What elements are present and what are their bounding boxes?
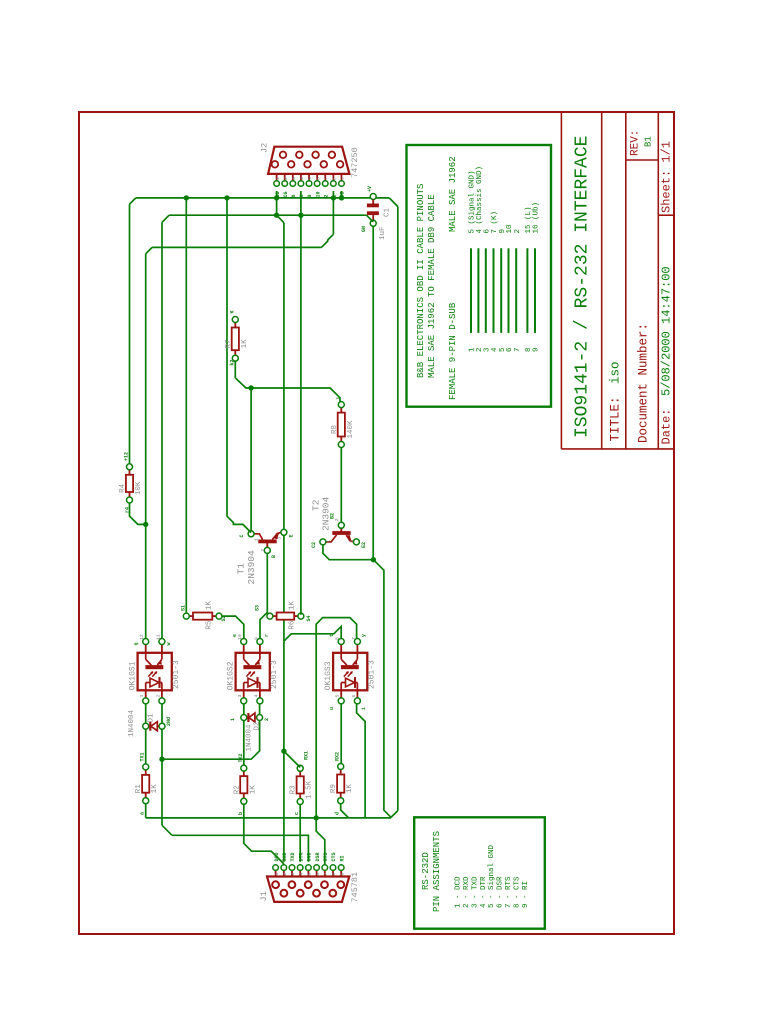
svg-text:2Nd: 2Nd — [166, 717, 172, 726]
svg-text:RI: RI — [339, 855, 345, 861]
svg-text:12: 12 — [139, 634, 145, 640]
wire V-C to opto1 pin12 — [145, 254, 147, 639]
svg-text:w: w — [166, 642, 172, 645]
wire T1 base to opto2 pin9 — [260, 554, 267, 639]
svg-text:B2: B2 — [329, 513, 335, 519]
junction J2 pin8 on line A — [331, 195, 336, 200]
svg-text:SG: SG — [275, 191, 281, 197]
svg-text:10: 10 — [237, 634, 243, 640]
svg-text:140K: 140K — [347, 420, 355, 439]
svg-text:Sheet: 1/1: Sheet: 1/1 — [660, 141, 674, 213]
svg-text:9 - RI: 9 - RI — [522, 881, 530, 908]
svg-text:TXD: TXD — [290, 852, 296, 861]
wire chamfer V11 bottom — [391, 811, 398, 818]
svg-text:1K: 1K — [346, 784, 354, 794]
wire opto2 pin3 to D2 — [243, 704, 245, 714]
svg-text:R2: R2 — [233, 785, 241, 794]
svg-text:7: 7 — [351, 637, 357, 640]
svg-text:R3: R3 — [290, 785, 298, 795]
svg-text:2501-3: 2501-3 — [172, 660, 181, 689]
svg-text:1uF: 1uF — [379, 226, 387, 240]
svg-text:L: L — [332, 194, 338, 197]
svg-text:S1: S1 — [180, 605, 186, 611]
svg-text:3: 3 — [277, 537, 283, 540]
wire J2 pin9 drop — [341, 191, 343, 198]
wire bus line B (GND rail) — [169, 214, 366, 216]
capacitor C1 1uF — [367, 194, 379, 227]
connector J2 DB9 747250 — [268, 147, 349, 187]
svg-text:OK1GS2: OK1GS2 — [227, 661, 236, 690]
svg-text:3: 3 — [291, 177, 297, 180]
svg-text:e: e — [232, 634, 238, 637]
svg-text:5: 5 — [307, 873, 313, 876]
wire horseshoe opto3 pin7 — [316, 618, 356, 865]
optocoupler OK1GS2 2501-3 — [236, 639, 270, 704]
svg-text:6: 6 — [315, 177, 321, 180]
svg-text:R8: R8 — [331, 425, 339, 434]
wire J2 pin8 drop — [332, 191, 334, 234]
junction D1 column x GND spur — [159, 757, 164, 762]
svg-text:1: 1 — [326, 540, 332, 543]
svg-text:GND: GND — [307, 852, 313, 861]
wire R3 bottom to J1 pin4 — [299, 805, 301, 862]
svg-text:GN: GN — [361, 226, 367, 232]
svg-text:2501-3: 2501-3 — [368, 660, 377, 689]
wire chamfer C-right — [321, 234, 333, 247]
svg-text:CTS: CTS — [331, 852, 337, 861]
svg-text:TITLE:: TITLE: — [609, 396, 623, 441]
svg-text:i: i — [361, 707, 367, 710]
junction J2 pin1 on line B — [274, 213, 279, 218]
svg-text:745781: 745781 — [350, 872, 360, 903]
svg-text:RXD: RXD — [282, 852, 288, 861]
wire J2 pin4 drop / V7 to R6 — [300, 191, 302, 615]
wire V284 bottom to J1 pin2 — [283, 641, 285, 862]
svg-text:L: L — [335, 396, 341, 399]
resistor R7 — [232, 317, 239, 362]
svg-text:4 (Chassis GND): 4 (Chassis GND) — [476, 166, 484, 234]
wire R8 bottom to T2 base — [340, 448, 342, 523]
svg-text:b: b — [238, 812, 244, 815]
svg-text:REV:: REV: — [630, 130, 642, 156]
svg-text:TX2: TX2 — [238, 753, 244, 762]
wire R1 bottom stub — [145, 804, 147, 818]
svg-text:B: B — [271, 555, 277, 558]
svg-text:1K: 1K — [151, 784, 159, 794]
svg-text:OK1GS3: OK1GS3 — [324, 661, 333, 690]
svg-text:+V: +V — [367, 186, 373, 192]
svg-text:RX2: RX2 — [335, 752, 341, 761]
svg-text:10: 10 — [315, 191, 321, 197]
wire V2 to opto1 pin11 — [161, 222, 163, 638]
wire V1 to R4 — [129, 204, 131, 464]
svg-text:C2: C2 — [311, 542, 317, 548]
svg-text:S3: S3 — [255, 605, 261, 611]
svg-text:3: 3 — [290, 873, 296, 876]
svg-text:u: u — [329, 707, 335, 710]
svg-text:1 - DCD: 1 - DCD — [455, 876, 463, 908]
wire R5 right to opto2 pin10 — [222, 616, 244, 638]
svg-text:1K: 1K — [206, 601, 214, 611]
svg-text:3: 3 — [237, 695, 243, 698]
svg-text:1: 1 — [230, 718, 236, 721]
svg-text:C1: C1 — [384, 207, 392, 217]
svg-text:t: t — [329, 634, 335, 637]
svg-text:2: 2 — [283, 177, 289, 180]
svg-text:K: K — [299, 194, 305, 197]
note box: B&B cable pinout table — [407, 145, 552, 407]
wire V11 right riser — [397, 207, 399, 811]
diode D1 1N4004 — [143, 722, 165, 731]
svg-text:J1: J1 — [259, 891, 269, 901]
svg-text:Date:: Date: — [660, 408, 674, 444]
svg-text:B1: B1 — [644, 136, 654, 147]
svg-text:T1: T1 — [236, 563, 247, 575]
svg-text:8: 8 — [331, 873, 337, 876]
wire opto1 pin1 to D1 — [145, 704, 147, 723]
svg-text:4: 4 — [298, 873, 304, 876]
svg-text:1: 1 — [139, 695, 145, 698]
connector J1 DB9 745781 — [267, 865, 349, 902]
wire GND spur to D2 — [162, 721, 260, 760]
wire chamfer B-right to C1 — [367, 215, 374, 222]
svg-text:a: a — [140, 812, 146, 815]
svg-text:6: 6 — [291, 194, 297, 197]
wire 835 rail to J1 pin5 — [172, 835, 308, 861]
junction V10 T2 collector — [371, 557, 376, 562]
wire V10 lower riser — [373, 560, 391, 818]
wire bottom rail (py 817) — [146, 817, 392, 819]
wire V284 lower — [283, 535, 285, 642]
page border frame — [79, 112, 674, 934]
svg-text:r4: r4 — [124, 507, 130, 513]
svg-text:OK1GS1: OK1GS1 — [129, 661, 138, 690]
junction horseshoe on bottom rail — [314, 815, 319, 820]
svg-text:5: 5 — [335, 695, 341, 698]
svg-text:E: E — [288, 534, 294, 537]
svg-text:PIN ASSIGNMENTS: PIN ASSIGNMENTS — [432, 831, 442, 912]
svg-text:CG: CG — [283, 191, 289, 197]
title block frame — [561, 113, 674, 449]
wire opto2 pin4 stub — [259, 704, 261, 714]
svg-text:10K: 10K — [135, 481, 143, 495]
svg-text:k2: k2 — [229, 359, 235, 365]
svg-text:D2: D2 — [254, 721, 262, 730]
svg-text:1: 1 — [274, 873, 280, 876]
wire R3 top diagonal — [284, 751, 300, 767]
svg-text:1K: 1K — [241, 339, 249, 349]
junction J2 pin9 on line A — [339, 195, 344, 200]
svg-text:1: 1 — [275, 177, 281, 180]
svg-text:2N3904: 2N3904 — [246, 550, 257, 585]
wire R7 bottom to T1 collector rail — [235, 361, 340, 401]
junction R4 jog on V-C — [143, 522, 148, 527]
resistor R9 — [337, 764, 344, 804]
svg-text:4: 4 — [253, 695, 259, 698]
svg-text:MALE SAE J1962 TO FEMALE DB9 C: MALE SAE J1962 TO FEMALE DB9 CABLE — [427, 194, 437, 378]
svg-text:E2: E2 — [361, 542, 367, 548]
svg-text:S2: S2 — [221, 615, 227, 621]
svg-text:1: 1 — [254, 538, 260, 541]
svg-text:d: d — [335, 812, 341, 815]
svg-text:11: 11 — [155, 634, 161, 640]
svg-text:ISO9141-2 / RS-232 INTERFACE: ISO9141-2 / RS-232 INTERFACE — [573, 136, 593, 438]
resistor R6 — [267, 613, 304, 620]
svg-text:4 - DTR: 4 - DTR — [480, 876, 488, 908]
wire D1 to R1 — [145, 729, 147, 763]
wire D1 right column — [161, 729, 163, 825]
junction V7 on line B — [298, 213, 303, 218]
svg-text:RX1: RX1 — [304, 751, 310, 760]
wire chamfer into 835 rail — [162, 825, 172, 835]
transistor T2 2N3904 — [320, 522, 360, 545]
wire bus line A (+12V rail) — [136, 197, 389, 199]
wire R4 bottom jog — [130, 503, 146, 524]
svg-text:DCD: DCD — [274, 852, 280, 861]
svg-text:R9: R9 — [330, 784, 338, 793]
svg-text:9: 9 — [253, 637, 259, 640]
resistor R1 — [142, 764, 149, 804]
wire D2 to R2 — [243, 721, 245, 765]
wire R9 bottom diagonal — [341, 804, 349, 818]
svg-text:2: 2 — [282, 873, 288, 876]
svg-text:y: y — [361, 634, 367, 637]
svg-text:2: 2 — [264, 718, 270, 721]
svg-text:8: 8 — [335, 637, 341, 640]
wire R2 bottom to J1 pin2 — [244, 805, 284, 864]
svg-text:9: 9 — [340, 177, 346, 180]
svg-text:7: 7 — [514, 347, 522, 352]
svg-text:R5: R5 — [206, 620, 214, 630]
svg-text:7 - RTS: 7 - RTS — [505, 876, 513, 908]
resistor R4 — [126, 464, 133, 503]
transistor T1 2N3904 — [248, 529, 287, 553]
resistor R3 — [297, 765, 304, 804]
wire T1 emitter riser / V284 upper — [277, 215, 284, 223]
wire R6 left stub — [266, 615, 268, 617]
wire bus line C — [152, 246, 321, 248]
optocoupler OK1GS1 2501-3 — [138, 639, 172, 704]
wire chamfer B-left — [162, 215, 169, 222]
svg-text:8 - CTS: 8 - CTS — [513, 876, 521, 908]
svg-text:2: 2 — [514, 229, 522, 234]
svg-text:5: 5 — [307, 177, 313, 180]
svg-text:DTR: DTR — [298, 852, 304, 861]
wire chamfer A-right — [389, 198, 398, 207]
optocoupler OK1GS3 2501-3 — [333, 639, 367, 704]
svg-text:UB: UB — [340, 191, 346, 197]
resistor R2 — [240, 765, 247, 804]
svg-text:TX1: TX1 — [140, 752, 146, 761]
svg-text:7: 7 — [323, 177, 329, 180]
junction R3 tap on V284 — [281, 748, 286, 753]
svg-text:R1: R1 — [135, 784, 143, 794]
svg-text:8: 8 — [332, 177, 338, 180]
svg-text:Document Number:: Document Number: — [637, 323, 651, 443]
wire chamfer C-left — [146, 247, 152, 253]
wire V3 to R5 left — [185, 198, 187, 613]
wire opto1 pin2 to D1 — [161, 704, 163, 723]
svg-text:S4: S4 — [306, 615, 312, 621]
svg-text:r: r — [264, 634, 270, 637]
svg-text:9: 9 — [339, 873, 345, 876]
svg-text:R4: R4 — [119, 483, 127, 493]
svg-text:1N4004: 1N4004 — [246, 724, 254, 752]
svg-text:747250: 747250 — [350, 147, 360, 178]
svg-text:5 - Signal GND: 5 - Signal GND — [488, 844, 496, 908]
junction T1 collector rail — [248, 385, 253, 390]
svg-text:c: c — [294, 812, 300, 815]
svg-text:1.5K: 1.5K — [306, 780, 314, 799]
resistor R8 — [338, 402, 345, 448]
svg-text:1K: 1K — [249, 785, 257, 795]
wire R7 top stub — [234, 323, 236, 325]
svg-text:9: 9 — [533, 347, 541, 352]
svg-text:3: 3 — [349, 540, 355, 543]
svg-text:7: 7 — [323, 873, 329, 876]
wire T1 collector riser — [250, 388, 252, 531]
svg-text:+12: +12 — [124, 452, 130, 461]
diode D2 1N4004 — [241, 713, 263, 722]
resistor R5 — [183, 613, 222, 620]
junction J2 pin1 on line A — [274, 195, 279, 200]
svg-text:5/08/2000 14:47:00: 5/08/2000 14:47:00 — [660, 266, 674, 396]
svg-text:16 (Ub): 16 (Ub) — [533, 202, 541, 234]
svg-text:2: 2 — [323, 194, 329, 197]
svg-text:q: q — [134, 642, 140, 645]
svg-text:C: C — [239, 534, 245, 537]
wire opto3 pin5 to R9 — [340, 704, 342, 763]
svg-text:6: 6 — [315, 873, 321, 876]
svg-text:R7: R7 — [225, 339, 233, 348]
junction V4 on line A — [224, 195, 229, 200]
svg-text:1K: 1K — [288, 601, 296, 611]
svg-text:B&B ELECTRONICS OBD II CABLE P: B&B ELECTRONICS OBD II CABLE PINOUTS — [416, 184, 426, 378]
wire T2 collector run — [323, 546, 374, 560]
svg-text:MALE SAE J1962: MALE SAE J1962 — [448, 156, 458, 232]
svg-text:2: 2 — [155, 695, 161, 698]
svg-text:6: 6 — [351, 695, 357, 698]
svg-text:3 - TXD: 3 - TXD — [471, 876, 479, 908]
junction V3 on line A — [184, 195, 189, 200]
wire opto3 pin6 drop — [357, 704, 366, 818]
wire J2 pin1 drop — [276, 191, 278, 215]
wire emitter branch to opto3 pin8 — [284, 626, 341, 641]
svg-text:RS-232D: RS-232D — [421, 852, 431, 890]
wire V4 riser — [227, 198, 251, 533]
svg-text:J2: J2 — [260, 143, 270, 153]
note box: RS-232D pin assignments — [414, 817, 545, 928]
svg-text:R6: R6 — [288, 620, 296, 630]
svg-text:iso: iso — [609, 361, 623, 384]
svg-text:DSR: DSR — [315, 852, 321, 861]
svg-text:RTS: RTS — [323, 852, 329, 861]
svg-text:6 - DSR: 6 - DSR — [497, 876, 505, 908]
svg-text:2501-3: 2501-3 — [270, 660, 279, 689]
svg-text:1N4004: 1N4004 — [128, 709, 136, 737]
svg-text:2 - RXD: 2 - RXD — [463, 876, 471, 908]
svg-text:D1: D1 — [148, 713, 156, 723]
wire chamfer A-left — [130, 198, 136, 204]
svg-text:9: 9 — [307, 194, 313, 197]
svg-text:2: 2 — [260, 549, 266, 552]
svg-text:K: K — [229, 310, 235, 313]
svg-text:FEMALE 9-PIN D-SUB: FEMALE 9-PIN D-SUB — [448, 302, 458, 400]
svg-text:4: 4 — [299, 177, 305, 180]
wire C1 bottom / V10 — [372, 226, 374, 559]
